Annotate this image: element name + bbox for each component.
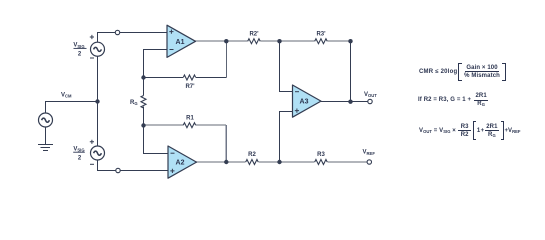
op-amp A3	[293, 85, 322, 117]
wire grey R1 row	[144, 124, 227, 126]
wire A3 + input from bottom rail	[280, 112, 293, 163]
svg-text:VSIG: VSIG	[73, 43, 84, 49]
wire A2 - input from R1 row	[144, 126, 169, 154]
svg-text:R1: R1	[186, 116, 194, 122]
svg-text:VCM: VCM	[61, 93, 72, 99]
source S3 VCM	[39, 113, 53, 127]
svg-text:R3': R3'	[316, 32, 326, 38]
plus sign S2	[90, 140, 94, 144]
minus sign S2	[90, 163, 94, 165]
plus sign S1	[90, 35, 94, 39]
node A2 out junction	[224, 160, 228, 164]
node RG top	[141, 75, 145, 79]
node A1 out junction	[224, 39, 228, 43]
node VCM junction	[95, 99, 99, 103]
node R2-R3 junction	[277, 160, 281, 164]
wire RG leads	[143, 78, 145, 126]
terminal VREF	[367, 160, 371, 164]
resistor R3'	[315, 39, 328, 44]
node RG bottom	[141, 123, 145, 127]
resistor RG (vertical)	[141, 96, 146, 109]
svg-text:VREF: VREF	[363, 150, 376, 156]
wire bottom-left input from source S2 to A2 +	[98, 160, 169, 171]
resistor R2	[246, 160, 259, 165]
svg-text:2: 2	[78, 52, 82, 58]
svg-text:A1: A1	[176, 39, 185, 46]
node R3' right junction	[348, 39, 352, 43]
svg-text:A3: A3	[300, 99, 309, 106]
source S2 VSIG/2 bottom	[91, 146, 105, 160]
resistor R2'	[248, 39, 261, 44]
equation VOUT	[419, 121, 520, 140]
wire A3 output to VOUT terminal	[321, 101, 368, 103]
resistor R3	[315, 160, 328, 165]
node A3 out junction	[348, 100, 352, 104]
resistor R1	[183, 123, 196, 128]
minus sign S1	[90, 57, 94, 59]
label VSIG/2 bottom	[73, 146, 85, 161]
wire grey bottom rail A2 out through R2 R3	[197, 161, 368, 163]
svg-text:R2: R2	[248, 152, 256, 158]
wire feedback vertical from top rail to A3 output	[350, 42, 352, 102]
terminal input top	[115, 30, 119, 34]
source S1 VSIG/2 top	[91, 42, 105, 56]
svg-text:R3: R3	[317, 152, 325, 158]
svg-text:2: 2	[78, 155, 82, 161]
wire grey top rail A1 out through R2' R3'	[144, 41, 368, 162]
wire A1 - input and down to RG top	[144, 50, 168, 78]
wire VCM horizontal and vertical	[46, 102, 98, 114]
wire vertical from top rail down to R7' row	[225, 42, 227, 78]
op-amp A1	[167, 25, 196, 57]
svg-text:R7': R7'	[185, 84, 195, 90]
svg-text:R2': R2'	[249, 32, 259, 38]
svg-text:RG: RG	[130, 100, 138, 106]
equation CMR	[419, 63, 507, 82]
wire VCM source to ground	[45, 127, 47, 145]
node R2'-R3' junction	[277, 39, 281, 43]
wire A3 - input from top rail	[280, 42, 293, 92]
node junction dots	[95, 39, 352, 164]
svg-text:VSIG: VSIG	[73, 146, 84, 152]
wire R7' row	[144, 77, 227, 79]
svg-text:VOUT: VOUT	[364, 92, 377, 98]
wire main vertical between sources	[97, 56, 99, 146]
op-amp A2	[168, 146, 197, 178]
terminal VOUT	[368, 99, 372, 103]
label VSIG/2 top	[73, 43, 86, 58]
equation gain	[418, 91, 489, 109]
wire top-left input from source S1 to A1 +	[46, 33, 368, 171]
terminal input bottom	[116, 168, 120, 172]
ground	[38, 145, 53, 151]
svg-text:A2: A2	[176, 160, 185, 167]
resistor R7'	[183, 75, 196, 80]
wire vertical A2 feedback down (medium grey)	[225, 125, 227, 162]
